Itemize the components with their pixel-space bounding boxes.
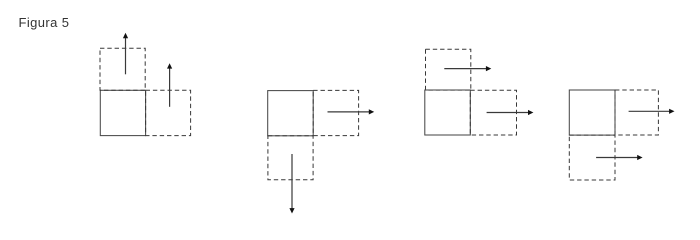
group 4: dashed square right xyxy=(615,90,658,135)
group 3: right arrow in top square xyxy=(444,66,491,71)
group 1: dashed square right xyxy=(146,90,191,135)
group 2: down arrow xyxy=(289,154,294,214)
svg-text:Figura 5: Figura 5 xyxy=(19,15,70,30)
group 3: solid square xyxy=(425,90,471,135)
group 2: dashed square right xyxy=(313,90,358,135)
group 4: dashed square below xyxy=(569,135,615,180)
group 1: up arrow in top square xyxy=(123,33,128,75)
group 3: dashed square top xyxy=(426,49,471,90)
group 4: solid square xyxy=(569,90,615,135)
group 2: dashed square below xyxy=(268,136,313,180)
group 1: solid square xyxy=(100,90,145,135)
group 4: right arrow in bottom square xyxy=(596,155,643,160)
group 2: solid square xyxy=(268,91,314,136)
group 3: right arrow in right square xyxy=(487,110,534,115)
group 4: right arrow in right square xyxy=(629,109,675,114)
group 3: dashed square right xyxy=(470,90,516,135)
group 1: dashed square above xyxy=(100,48,145,90)
group 1: up arrow in right square xyxy=(167,63,172,107)
group 2: right arrow xyxy=(328,109,375,114)
